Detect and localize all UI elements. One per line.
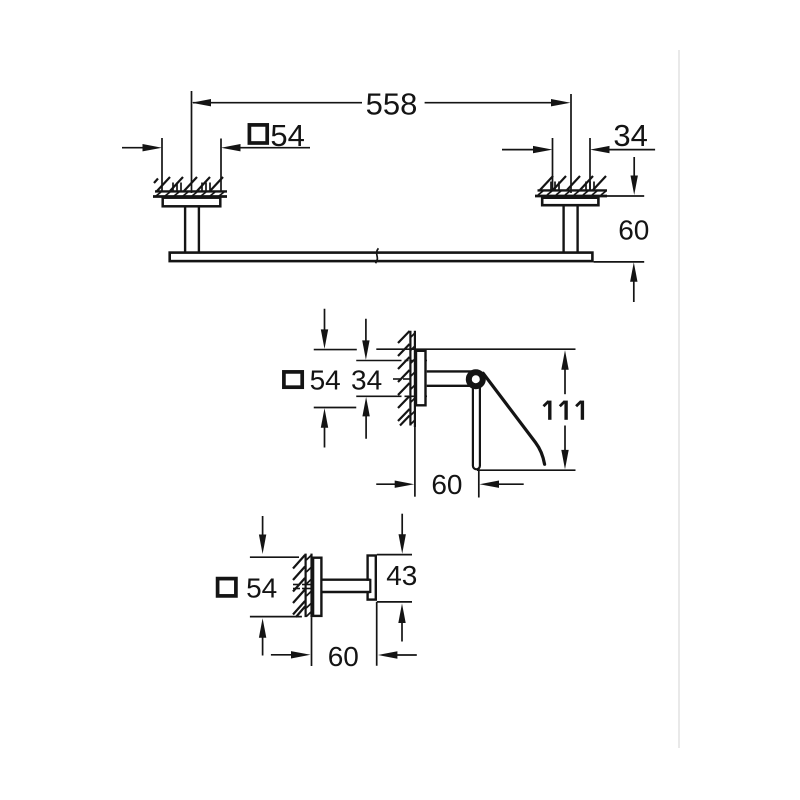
svg-text:60: 60: [618, 215, 649, 246]
svg-text:54: 54: [246, 573, 277, 604]
svg-text:60: 60: [328, 641, 359, 672]
svg-text:34: 34: [613, 118, 647, 153]
svg-text:54: 54: [270, 118, 304, 153]
svg-text:34: 34: [351, 364, 382, 395]
svg-text:60: 60: [431, 469, 462, 500]
svg-text:558: 558: [366, 86, 418, 121]
svg-text:54: 54: [310, 364, 341, 395]
svg-text:43: 43: [386, 560, 417, 591]
